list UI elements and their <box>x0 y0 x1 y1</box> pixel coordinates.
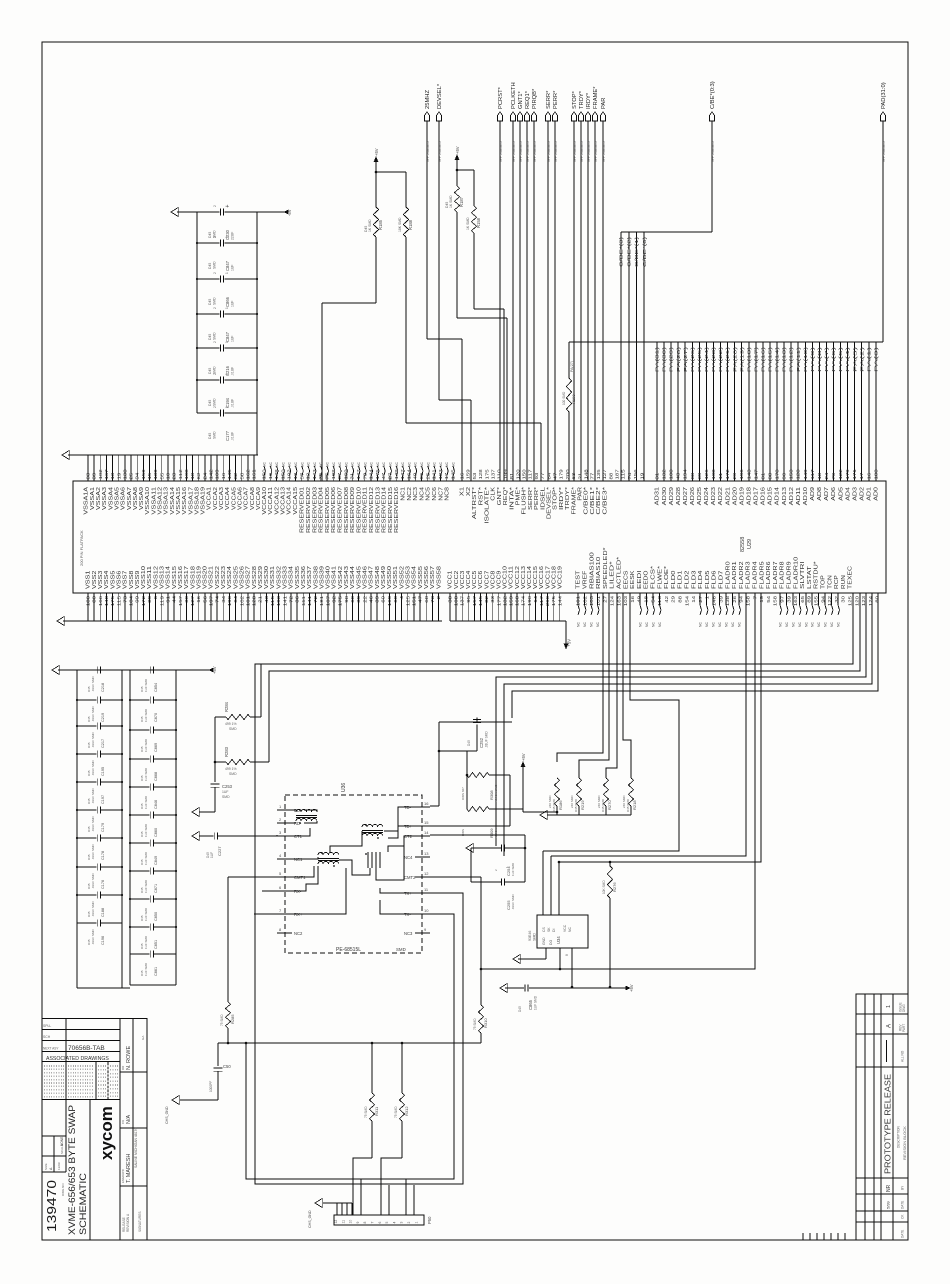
svg-text:30: 30 <box>841 595 846 602</box>
svg-text:TEXEC: TEXEC <box>848 565 854 589</box>
svg-text:NC4: NC4 <box>419 487 425 501</box>
svg-text:2: 2 <box>213 205 217 207</box>
wire <box>554 121 556 481</box>
xycom logo <box>97 1106 116 1160</box>
svg-text:FLADR8: FLADR8 <box>780 561 786 589</box>
svg-text:GA: GA <box>141 1036 145 1040</box>
svg-text:132: 132 <box>662 469 667 480</box>
svg-text:147: 147 <box>753 469 758 480</box>
svg-text:VSS44: VSS44 <box>350 566 356 589</box>
wire CMT1 to R285 <box>228 877 277 1002</box>
svg-text:IDSEL: IDSEL <box>540 487 546 510</box>
svg-text:RBIAS10: RBIAS10 <box>596 556 602 589</box>
svg-text:D45: D45 <box>208 232 212 238</box>
svg-text:VSS14: VSS14 <box>166 566 172 589</box>
svg-text:1UF SMD: 1UF SMD <box>534 995 538 1010</box>
svg-text:RBIAS100: RBIAS100 <box>589 552 595 589</box>
wire TD loop <box>430 722 510 826</box>
svg-text:13: 13 <box>424 851 429 856</box>
power +5V <box>374 148 379 173</box>
svg-text:29: 29 <box>671 595 676 602</box>
svg-text:VSS11: VSS11 <box>147 566 153 589</box>
svg-text:6: 6 <box>378 1222 382 1224</box>
svg-text:VSS57: VSS57 <box>430 566 436 589</box>
svg-text:NC8: NC8 <box>445 487 451 501</box>
U36 pin 3 CT1 <box>277 830 303 839</box>
svg-text:SK: SK <box>547 927 551 932</box>
svg-text:AD2: AD2 <box>859 487 865 501</box>
svg-text:18K SMD: 18K SMD <box>398 217 402 232</box>
svg-text:117: 117 <box>810 469 815 480</box>
svg-text:RESERVED03: RESERVED03 <box>312 487 318 533</box>
svg-text:P50: P50 <box>427 1216 432 1224</box>
svg-text:R285: R285 <box>230 1014 235 1024</box>
svg-text:RESERVED15: RESERVED15 <box>388 487 394 533</box>
svg-text:ISSUE: ISSUE <box>899 1002 903 1012</box>
svg-text:FLADR3: FLADR3 <box>746 561 752 589</box>
svg-text:PA(3): PA(3) <box>852 346 857 372</box>
wire <box>519 121 521 481</box>
svg-text:VSSA1: VSSA1 <box>90 487 96 510</box>
svg-text:.01UF: .01UF <box>231 399 235 408</box>
svg-text:.01UF SMD: .01UF SMD <box>91 843 95 860</box>
svg-text:154: 154 <box>684 595 689 606</box>
svg-text:NC2: NC2 <box>294 931 303 936</box>
U29 bottom VCC pin stubs <box>450 593 560 621</box>
ground CHS_GND <box>165 1096 179 1125</box>
capacitor C177 <box>197 406 257 441</box>
svg-text:240 SMD: 240 SMD <box>570 795 574 808</box>
svg-text:C866: C866 <box>225 296 230 307</box>
svg-text:CS: CS <box>542 927 546 932</box>
svg-text:STOP*: STOP* <box>572 90 578 109</box>
svg-text:VSS21: VSS21 <box>209 566 215 589</box>
flag REQ1* <box>524 90 531 162</box>
ground <box>192 832 199 841</box>
svg-text:VCC3: VCC3 <box>460 570 466 589</box>
svg-text:VSS36: VSS36 <box>301 566 307 589</box>
connector P50 <box>334 1215 432 1225</box>
svg-text:77: 77 <box>540 472 545 479</box>
svg-text:RSTDU*: RSTDU* <box>814 561 820 589</box>
capacitor C194 <box>196 373 258 408</box>
svg-text:VSS25: VSS25 <box>233 566 239 589</box>
svg-text:VCCA10: VCCA10 <box>262 487 268 515</box>
svg-text:C/BE*(2): C/BE*(2) <box>626 236 631 267</box>
svg-text:14: 14 <box>424 830 429 835</box>
AD bus drop labels <box>655 346 879 372</box>
svg-text:AD25: AD25 <box>697 487 703 506</box>
svg-text:VSSA1A: VSSA1A <box>84 486 90 515</box>
svg-text:C847: C847 <box>225 331 230 342</box>
svg-text:VSSA2: VSSA2 <box>96 487 102 510</box>
svg-text:PERR*: PERR* <box>553 90 559 109</box>
svg-text:DO: DO <box>549 940 553 945</box>
svg-text:C854: C854 <box>154 683 158 692</box>
svg-text:1UF SMD: 1UF SMD <box>144 823 148 837</box>
svg-text:VSS19: VSS19 <box>196 566 202 589</box>
svg-text:FLADR6: FLADR6 <box>766 561 772 589</box>
svg-text:15: 15 <box>424 820 429 825</box>
U36 pin 10 TX- <box>404 908 430 917</box>
svg-text:DWG NO: DWG NO <box>61 1183 65 1196</box>
capacitor C865 <box>505 985 630 1013</box>
svg-text:NC: NC <box>725 622 729 627</box>
wire staircase to LED resistors <box>557 593 631 778</box>
svg-text:A: A <box>887 1024 893 1028</box>
svg-text:R283: R283 <box>224 746 229 757</box>
svg-text:RESERVED13: RESERVED13 <box>375 487 381 533</box>
svg-text:25: 25 <box>129 472 134 479</box>
power +5V <box>564 639 571 649</box>
svg-text:DATE: DATE <box>901 1230 905 1238</box>
svg-text:NC: NC <box>590 622 594 627</box>
svg-text:NC7: NC7 <box>438 487 444 501</box>
svg-text:C860: C860 <box>154 828 158 837</box>
svg-text:VSS22: VSS22 <box>215 566 221 589</box>
svg-text:178: 178 <box>775 469 780 480</box>
svg-text:VCCA15: VCCA15 <box>293 487 299 515</box>
svg-text:NC: NC <box>426 462 430 467</box>
wire <box>214 717 217 782</box>
flag TRDY* <box>578 90 585 162</box>
svg-text:VCC11: VCC11 <box>509 566 515 589</box>
svg-text:RESERVED01: RESERVED01 <box>300 487 306 533</box>
svg-text:1UF SMD: 1UF SMD <box>144 962 148 976</box>
svg-text:11: 11 <box>718 472 723 479</box>
wire U29 bottom VSS rail <box>63 620 442 622</box>
capacitor C866 <box>196 272 258 307</box>
svg-text:VSSA5: VSSA5 <box>114 487 120 510</box>
svg-text:.01UF: .01UF <box>231 432 235 441</box>
flag DEVSEL* <box>436 83 443 162</box>
svg-text:55: 55 <box>159 472 164 479</box>
svg-text:VSS38: VSS38 <box>313 566 319 589</box>
svg-text:GND: GND <box>542 937 546 945</box>
svg-text:RUN: RUN <box>841 575 847 589</box>
title text SCHEMATIC XVME-656/653 BYTE SWAP <box>67 1105 89 1235</box>
U36 pin 8 NC2 <box>277 927 303 936</box>
svg-text:2: 2 <box>213 272 217 274</box>
svg-text:SCHEMATIC: SCHEMATIC <box>78 1173 89 1235</box>
svg-text:12: 12 <box>334 1220 338 1224</box>
svg-text:VSS28: VSS28 <box>252 566 258 589</box>
svg-text:TRDY*: TRDY* <box>565 487 571 510</box>
svg-text:144: 144 <box>369 469 374 480</box>
svg-text:N. ROWE: N. ROWE <box>126 1046 132 1070</box>
wire chassis line <box>218 1042 481 1044</box>
svg-text:AD1: AD1 <box>867 487 873 501</box>
svg-text:NC: NC <box>281 462 285 467</box>
svg-text:PA(5): PA(5) <box>838 346 843 372</box>
svg-text:SPEEDLED*: SPEEDLED* <box>603 548 609 589</box>
svg-text:39: 39 <box>718 595 723 602</box>
svg-text:19: 19 <box>759 595 764 602</box>
svg-text:NC: NC <box>313 462 317 467</box>
svg-text:NR: NR <box>886 1184 892 1192</box>
svg-text:C/BE2*: C/BE2* <box>596 487 602 515</box>
svg-text:NEXT ASY: NEXT ASY <box>43 1047 59 1051</box>
svg-text:C865: C865 <box>528 999 533 1010</box>
svg-text:4: 4 <box>392 1222 396 1224</box>
svg-text:VSS40: VSS40 <box>326 566 332 589</box>
svg-text:NC: NC <box>395 462 399 467</box>
svg-text:+5V: +5V <box>629 984 634 992</box>
svg-text:DEVSEL*: DEVSEL* <box>437 83 443 109</box>
wire <box>573 121 575 481</box>
svg-text:NONE: NONE <box>60 1137 64 1146</box>
svg-text:AD17: AD17 <box>754 487 760 506</box>
svg-text:112: 112 <box>178 469 183 480</box>
svg-text:+5V: +5V <box>374 148 379 156</box>
svg-text:VSS51: VSS51 <box>393 566 399 589</box>
resistor R308 <box>461 772 510 802</box>
capacitor C255 <box>471 879 525 911</box>
svg-text:1UF: 1UF <box>231 336 235 342</box>
svg-text:SMD: SMD <box>213 297 217 305</box>
svg-text:VSS37: VSS37 <box>307 566 313 589</box>
svg-text:NC: NC <box>376 462 380 467</box>
svg-text:D45: D45 <box>518 1006 522 1012</box>
svg-text:C218: C218 <box>101 683 105 692</box>
svg-text:PA(28): PA(28) <box>676 346 681 372</box>
svg-text:VSS18: VSS18 <box>190 566 196 589</box>
svg-text:NC: NC <box>445 462 449 467</box>
svg-text:R276: R276 <box>612 882 617 892</box>
svg-text:NC: NC <box>275 462 279 467</box>
svg-text:164: 164 <box>406 469 411 480</box>
svg-text:PA(16): PA(16) <box>761 346 766 372</box>
svg-text:VCCA14: VCCA14 <box>287 487 293 515</box>
svg-text:SMD: SMD <box>213 431 217 439</box>
svg-text:120: 120 <box>515 469 520 480</box>
svg-text:NC3: NC3 <box>413 487 419 501</box>
svg-text:11: 11 <box>341 1220 345 1224</box>
svg-text:VCC17: VCC17 <box>545 566 551 589</box>
wire <box>523 811 558 814</box>
svg-text:-5V: -5V <box>287 209 292 216</box>
svg-text:75: 75 <box>325 472 330 479</box>
svg-text:C851: C851 <box>154 940 158 949</box>
svg-text:1UF SMD: 1UF SMD <box>144 935 148 949</box>
svg-text:FLADR2: FLADR2 <box>739 561 745 589</box>
svg-text:90: 90 <box>782 472 787 479</box>
border tick marks <box>803 1233 845 1240</box>
svg-text:138: 138 <box>122 469 127 480</box>
svg-text:AD22: AD22 <box>718 487 724 506</box>
svg-text:VCC9: VCC9 <box>497 570 503 589</box>
svg-text:NC: NC <box>785 622 789 627</box>
svg-text:C252: C252 <box>479 737 484 748</box>
svg-text:NC: NC <box>652 622 656 627</box>
resistor R270 <box>597 778 612 815</box>
svg-text:PA(12): PA(12) <box>789 346 794 372</box>
svg-text:+5V: +5V <box>567 639 572 647</box>
svg-text:AD23: AD23 <box>711 487 717 506</box>
svg-text:PA(8): PA(8) <box>817 346 822 372</box>
capacitor C252 <box>439 718 512 751</box>
svg-text:AD4: AD4 <box>845 487 851 501</box>
svg-text:16: 16 <box>424 801 429 806</box>
svg-text:122: 122 <box>838 469 843 480</box>
svg-text:SALINE MICHIGAN 48176: SALINE MICHIGAN 48176 <box>134 1128 138 1168</box>
svg-text:VSS15: VSS15 <box>172 566 178 589</box>
svg-text:+5V: +5V <box>455 146 460 154</box>
svg-text:194: 194 <box>683 469 688 480</box>
svg-text:SLVTRI: SLVTRI <box>800 561 806 589</box>
capacitor C188 <box>76 892 123 918</box>
svg-text:AD28: AD28 <box>676 487 682 506</box>
svg-text:C219: C219 <box>101 713 105 722</box>
svg-text:VSSA6: VSSA6 <box>121 487 127 510</box>
svg-text:AD20: AD20 <box>732 487 738 506</box>
flag PCLKETH <box>510 82 517 162</box>
svg-text:R187: R187 <box>459 196 464 207</box>
wire <box>594 121 596 481</box>
wire <box>533 121 535 481</box>
svg-text:FLD0: FLD0 <box>671 570 677 589</box>
U36 pin 6 RX- <box>277 885 302 894</box>
svg-text:TCN: TCN <box>827 575 833 589</box>
svg-text:NC: NC <box>583 622 587 627</box>
U36 pin 15 TD+ <box>404 820 430 829</box>
capacitor C254 <box>471 845 526 883</box>
svg-text:12: 12 <box>424 871 429 876</box>
revision block headers <box>897 1002 908 1238</box>
wire CMT2 <box>430 877 482 970</box>
svg-text:SERR*: SERR* <box>528 487 534 510</box>
svg-text:D45 SMD: D45 SMD <box>601 798 605 812</box>
svg-text:AD9: AD9 <box>810 487 816 501</box>
U29 top VSS pin stubs <box>88 455 254 481</box>
svg-text:NC: NC <box>837 622 841 627</box>
svg-text:RESERVED05: RESERVED05 <box>325 487 331 533</box>
svg-text:79: 79 <box>362 472 367 479</box>
svg-text:128: 128 <box>796 469 801 480</box>
svg-text:NC5: NC5 <box>426 487 432 501</box>
svg-text:ENGRAPR: ENGRAPR <box>121 1169 125 1183</box>
svg-text:+5V: +5V <box>212 666 217 674</box>
svg-text:117: 117 <box>528 469 533 480</box>
svg-text:VSS48: VSS48 <box>375 566 381 589</box>
svg-text:VSSA14: VSSA14 <box>170 487 176 515</box>
svg-text:1UF SMD: 1UF SMD <box>144 907 148 921</box>
svg-text:150: 150 <box>280 469 285 480</box>
svg-text:AD11: AD11 <box>796 487 802 506</box>
svg-text:.01UF SMD: .01UF SMD <box>91 872 95 889</box>
svg-text:196: 196 <box>739 469 744 480</box>
title block frame <box>42 1019 147 1241</box>
flag GNT1* <box>517 91 524 162</box>
svg-text:NC: NC <box>452 462 456 467</box>
svg-text:NC: NC <box>439 462 443 467</box>
svg-text:81: 81 <box>509 472 514 479</box>
svg-text:VSS42: VSS42 <box>338 566 344 589</box>
wire P50 ground pins <box>323 1203 352 1215</box>
U29 bottom VSS pin stubs <box>88 593 439 621</box>
svg-text:NC: NC <box>712 622 716 627</box>
wire routing bus 5 <box>512 593 878 718</box>
svg-text:88: 88 <box>767 472 772 479</box>
svg-text:PA(14): PA(14) <box>775 346 780 372</box>
svg-text:NC: NC <box>300 462 304 467</box>
svg-text:VCC5: VCC5 <box>472 570 478 589</box>
svg-text:49: 49 <box>637 595 642 602</box>
capacitor C227 <box>199 833 277 859</box>
svg-text:35: 35 <box>318 472 323 479</box>
svg-text:NC: NC <box>288 462 292 467</box>
svg-text:NC: NC <box>351 462 355 467</box>
svg-text:1: 1 <box>225 406 229 408</box>
svg-text:VCCA13: VCCA13 <box>281 487 287 515</box>
svg-text:VSS6: VSS6 <box>116 570 122 589</box>
U36 choke <box>365 852 380 868</box>
svg-text:VCCA4: VCCA4 <box>225 487 231 510</box>
svg-text:VSS4: VSS4 <box>104 570 110 589</box>
svg-text:PA(20): PA(20) <box>732 346 737 372</box>
svg-text:VSSA16: VSSA16 <box>182 487 188 515</box>
svg-text:AD7: AD7 <box>824 487 830 501</box>
svg-text:DEVSEL*: DEVSEL* <box>547 487 553 519</box>
svg-text:141: 141 <box>432 469 437 480</box>
svg-text:R218: R218 <box>632 800 637 810</box>
svg-text:FLCS*: FLCS* <box>651 566 657 589</box>
svg-text:1: 1 <box>225 307 229 309</box>
svg-text:FLADR0: FLADR0 <box>725 561 731 589</box>
svg-text:PA(30): PA(30) <box>662 346 667 372</box>
svg-text:VSS35: VSS35 <box>295 566 301 589</box>
svg-text:39: 39 <box>92 472 97 479</box>
capacitor C216 <box>196 341 258 376</box>
capacitor C253 <box>199 784 233 812</box>
capacitor C851 <box>129 924 177 950</box>
svg-text:VSS52: VSS52 <box>399 566 405 589</box>
svg-text:80: 80 <box>875 595 880 602</box>
svg-text:AD30: AD30 <box>662 487 668 506</box>
svg-text:PIRQB*: PIRQB* <box>532 88 538 109</box>
svg-text:R188: R188 <box>408 219 413 230</box>
svg-text:C/BE*(1): C/BE*(1) <box>634 236 639 267</box>
svg-text:NC: NC <box>263 462 267 467</box>
svg-text:115: 115 <box>621 469 626 480</box>
svg-text:VCC7: VCC7 <box>484 570 490 589</box>
svg-text:16: 16 <box>866 472 871 479</box>
svg-text:RCP: RCP <box>834 574 840 589</box>
svg-text:88: 88 <box>678 595 683 602</box>
svg-text:13/99: 13/99 <box>57 1162 61 1170</box>
flag C/BE*(0:3) <box>709 81 716 162</box>
capacitor C219 <box>76 697 123 723</box>
wire C/BE drops <box>621 232 644 481</box>
svg-text:VSS2: VSS2 <box>92 570 98 589</box>
svg-text:NC: NC <box>596 622 600 627</box>
svg-text:PA(11): PA(11) <box>796 346 801 372</box>
wire <box>457 212 507 481</box>
resistor R187 <box>445 170 464 212</box>
svg-text:62: 62 <box>196 472 201 479</box>
svg-text:VSS10: VSS10 <box>141 566 147 589</box>
svg-text:1: 1 <box>414 1222 418 1224</box>
svg-text:C176: C176 <box>101 880 105 889</box>
svg-text:124: 124 <box>610 595 615 606</box>
svg-text:VCCA7: VCCA7 <box>244 487 250 510</box>
svg-text:NC: NC <box>401 462 405 467</box>
svg-text:23: 23 <box>172 472 177 479</box>
svg-text:VSS23: VSS23 <box>221 566 227 589</box>
U36 pin 12 CMT2 <box>404 871 430 880</box>
resistor R285 <box>220 1002 235 1044</box>
svg-text:PROTOTYPE RELEASE: PROTOTYPE RELEASE <box>884 1074 893 1174</box>
